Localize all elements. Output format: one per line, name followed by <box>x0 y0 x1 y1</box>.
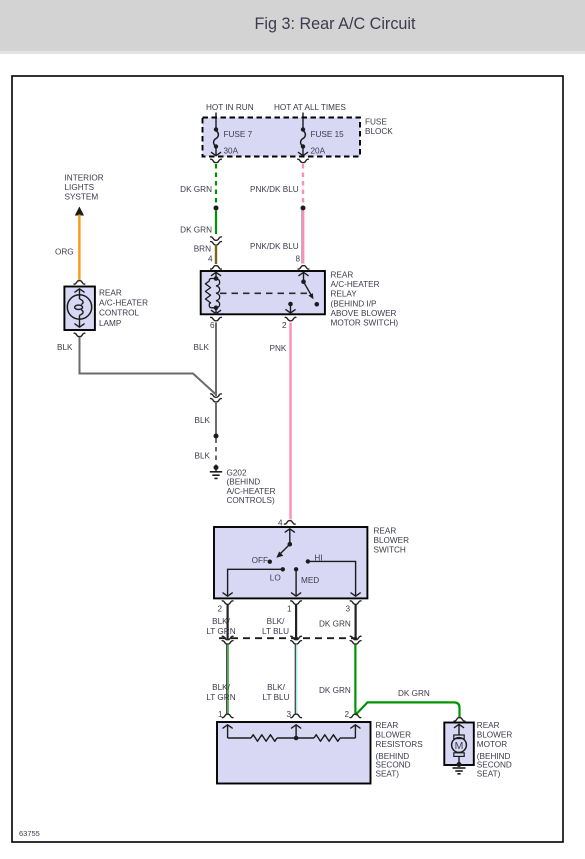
wire DK GRN to resistor pin 2 <box>319 644 355 714</box>
svg-text:REAR: REAR <box>477 721 500 730</box>
svg-text:HOT IN RUN: HOT IN RUN <box>206 103 254 112</box>
connector at relay pin 4 <box>211 266 222 269</box>
svg-text:1: 1 <box>287 605 292 614</box>
motor box <box>444 721 512 778</box>
switch wiper <box>276 529 294 558</box>
wire from pin 2 to connector <box>206 605 235 640</box>
svg-text:Fig 3: Rear A/C Circuit: Fig 3: Rear A/C Circuit <box>254 15 416 33</box>
relay switch contacts <box>286 272 319 314</box>
connector below switch pin 2 <box>222 601 233 604</box>
resistor bus and leads <box>223 725 360 741</box>
wire BLK to junction <box>195 402 216 434</box>
ground G202 <box>210 465 276 505</box>
connector at switch pin 4 <box>284 521 295 524</box>
svg-text:PNK/DK BLU: PNK/DK BLU <box>250 185 299 194</box>
svg-text:HOT AT ALL TIMES: HOT AT ALL TIMES <box>274 103 346 112</box>
inline connector pair BLK <box>211 394 222 402</box>
svg-text:MOTOR: MOTOR <box>477 740 507 749</box>
svg-text:SEAT): SEAT) <box>376 769 400 778</box>
contact OFF <box>252 556 272 565</box>
svg-text:MED: MED <box>301 576 319 585</box>
svg-text:A/C-HEATER: A/C-HEATER <box>99 299 148 308</box>
resistor R1 <box>251 735 277 742</box>
svg-text:BLOCK: BLOCK <box>365 127 393 136</box>
svg-text:LT GRN: LT GRN <box>206 627 235 636</box>
svg-text:G202: G202 <box>227 469 247 478</box>
connector below switch pin 1 <box>291 601 302 604</box>
connector below boundary pin 2 <box>222 636 233 639</box>
svg-text:DK GRN: DK GRN <box>398 689 430 698</box>
svg-text:2: 2 <box>344 710 349 719</box>
svg-text:BLOWER: BLOWER <box>477 731 513 740</box>
svg-text:BLK: BLK <box>195 452 211 461</box>
relay internal dashed link <box>220 292 308 294</box>
connector at relay pin 8 <box>298 266 309 269</box>
svg-text:3: 3 <box>345 605 350 614</box>
wire BLK dashed to ground <box>195 439 216 465</box>
connector below boundary pin 3 <box>350 636 361 639</box>
resistor box <box>217 721 423 784</box>
connector below boundary pin 1 <box>291 636 302 639</box>
svg-text:REAR: REAR <box>374 527 397 536</box>
svg-text:MOTOR SWITCH): MOTOR SWITCH) <box>331 319 399 328</box>
wire from pin 3 to connector <box>319 605 356 640</box>
svg-text:LT BLU: LT BLU <box>262 627 289 636</box>
connector at lamp bottom <box>74 333 85 336</box>
svg-text:A/C-HEATER: A/C-HEATER <box>331 280 380 289</box>
wire BLK/LT BLU <box>263 644 297 713</box>
svg-text:FUSE 7: FUSE 7 <box>224 130 253 139</box>
ground at motor <box>453 762 466 774</box>
svg-text:20A: 20A <box>311 147 326 156</box>
header bar <box>0 0 585 54</box>
svg-text:DK GRN: DK GRN <box>319 686 351 695</box>
svg-text:INTERIOR: INTERIOR <box>65 174 104 183</box>
svg-text:8: 8 <box>295 255 300 264</box>
fuse F15 20A <box>298 118 344 156</box>
relay coil <box>205 272 220 314</box>
svg-text:BLOWER: BLOWER <box>374 536 410 545</box>
inline connector pair left <box>211 237 222 245</box>
svg-text:BLK/: BLK/ <box>267 683 285 692</box>
svg-text:SECOND: SECOND <box>477 760 512 769</box>
connector below fuse 7 <box>211 159 222 162</box>
fuse F7 30A <box>211 118 252 156</box>
wire BLK/LT GRN <box>206 644 235 713</box>
svg-text:(BEHIND: (BEHIND <box>227 478 261 487</box>
svg-text:RESISTORS: RESISTORS <box>376 740 424 749</box>
svg-text:4: 4 <box>208 255 213 264</box>
svg-text:SECOND: SECOND <box>376 760 411 769</box>
svg-text:ORG: ORG <box>55 248 74 257</box>
svg-text:LAMP: LAMP <box>99 319 122 328</box>
svg-text:REAR: REAR <box>331 271 354 280</box>
svg-text:6: 6 <box>210 321 215 330</box>
svg-text:FUSE 15: FUSE 15 <box>311 130 345 139</box>
lamp L1 symbol <box>67 289 91 328</box>
junction dot DK GRN <box>214 206 219 211</box>
contact MED and wire to pin 1 <box>292 567 320 596</box>
node HOT AT ALL TIMES <box>274 103 346 118</box>
svg-text:OFF: OFF <box>252 556 268 565</box>
svg-text:63755: 63755 <box>19 829 40 838</box>
wire PNK/DK BLU solid <box>250 211 303 264</box>
svg-text:M: M <box>455 740 464 752</box>
resistor R2 <box>314 735 340 742</box>
blower switch box <box>214 527 409 599</box>
svg-text:BLOWER: BLOWER <box>376 731 412 740</box>
svg-text:LT BLU: LT BLU <box>263 693 290 702</box>
svg-text:RELAY: RELAY <box>331 290 358 299</box>
svg-text:BLK: BLK <box>194 343 210 352</box>
svg-text:LIGHTS: LIGHTS <box>65 183 95 192</box>
wire PNK from relay pin 2 <box>270 323 291 520</box>
svg-text:BLK: BLK <box>195 416 211 425</box>
svg-text:DK GRN: DK GRN <box>180 226 212 235</box>
svg-text:DK GRN: DK GRN <box>319 619 351 628</box>
svg-text:DK GRN: DK GRN <box>180 185 212 194</box>
svg-text:2: 2 <box>282 321 287 330</box>
svg-text:LT GRN: LT GRN <box>206 693 235 702</box>
lamp box <box>64 287 148 331</box>
svg-text:SYSTEM: SYSTEM <box>65 193 99 202</box>
relay U1 box <box>201 271 399 328</box>
wire DK GRN dashed from fuse 7 <box>180 164 216 205</box>
svg-text:30A: 30A <box>224 147 239 156</box>
connector at relay pin 6 <box>211 317 222 320</box>
contact HI and wire to pin 3 <box>306 553 361 596</box>
connector below fuse 15 <box>298 159 309 162</box>
wire PNK/DK BLU dashed from fuse 15 <box>250 164 303 205</box>
connector at resistor pin 1 <box>222 714 233 717</box>
connector below switch pin 3 <box>350 601 361 604</box>
wire from pin 1 to connector <box>262 605 296 640</box>
node INTERIOR LIGHTS SYSTEM <box>65 174 104 216</box>
connector at relay pin 2 <box>285 317 296 320</box>
wire ORG <box>55 215 79 281</box>
svg-text:ABOVE BLOWER: ABOVE BLOWER <box>331 309 397 318</box>
svg-text:CONTROLS): CONTROLS) <box>227 496 275 505</box>
svg-text:PNK/DK BLU: PNK/DK BLU <box>250 242 299 251</box>
svg-text:(BEHIND I/P: (BEHIND I/P <box>331 299 377 308</box>
motor M1 symbol <box>452 724 467 764</box>
svg-text:2: 2 <box>217 605 222 614</box>
wire BRN <box>194 245 216 265</box>
svg-text:BLK/: BLK/ <box>267 617 285 626</box>
contact LO and wire to pin 2 <box>223 567 285 596</box>
svg-text:REAR: REAR <box>376 721 399 730</box>
svg-text:A/C-HEATER: A/C-HEATER <box>227 487 276 496</box>
connector boundary dashed line <box>219 637 357 639</box>
svg-text:CONTROL: CONTROL <box>99 309 139 318</box>
svg-text:BRN: BRN <box>194 245 211 254</box>
connector at resistor pin 3 <box>291 714 302 717</box>
svg-text:PNK: PNK <box>270 344 287 353</box>
wire DK GRN branch to motor <box>355 689 459 717</box>
wire BLK from lamp <box>57 337 216 395</box>
connector at resistor pin 2 <box>350 714 361 717</box>
svg-text:REAR: REAR <box>99 288 122 297</box>
node HOT IN RUN <box>206 103 254 118</box>
fuse block box <box>203 118 394 157</box>
svg-text:SEAT): SEAT) <box>477 769 501 778</box>
wire BLK from relay pin 6 <box>194 323 216 397</box>
connector at lamp top <box>74 281 85 284</box>
connector at motor top <box>454 718 465 721</box>
svg-text:BLK/: BLK/ <box>212 617 230 626</box>
junction dot PNK <box>301 206 306 211</box>
svg-text:BLK/: BLK/ <box>212 683 230 692</box>
wire DK GRN solid <box>180 211 216 235</box>
svg-text:SWITCH: SWITCH <box>374 546 406 555</box>
svg-text:FUSE: FUSE <box>365 118 387 127</box>
svg-text:LO: LO <box>270 574 281 583</box>
svg-text:BLK: BLK <box>57 343 73 352</box>
junction dot BLK <box>214 434 219 439</box>
